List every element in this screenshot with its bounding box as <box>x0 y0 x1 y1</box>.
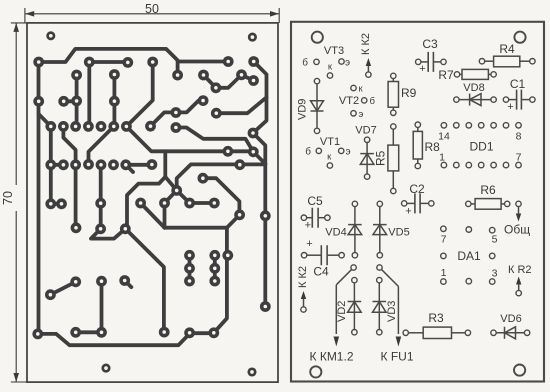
mounting hole <box>249 34 255 40</box>
svg-text:+: + <box>405 206 411 218</box>
wire <box>214 215 240 333</box>
wire to FU1 <box>377 265 401 347</box>
wire <box>253 152 265 164</box>
resistor R5 <box>374 124 399 194</box>
pad (113.8,126.4) <box>108 121 119 132</box>
wire <box>176 62 180 76</box>
pad (189.5,255.3) <box>184 250 195 261</box>
pad (75.7,281.8) <box>70 276 81 287</box>
svg-text:К К2: К К2 <box>360 33 372 55</box>
wire <box>64 99 77 103</box>
resistor R9 <box>388 73 417 115</box>
node K R2 arrow <box>508 264 532 296</box>
wire <box>176 128 253 152</box>
pad (175.9,127.5) <box>171 122 182 133</box>
pad (100.7,203.2) <box>95 198 106 209</box>
wire <box>151 101 204 127</box>
svg-text:VD2: VD2 <box>336 301 348 322</box>
diode VD2 <box>336 277 361 335</box>
pad (101.0,164.8) <box>96 159 107 170</box>
svg-text:+: + <box>419 63 425 75</box>
svg-text:C4: C4 <box>313 265 329 279</box>
wire <box>50 282 75 295</box>
resistor R7 <box>438 68 496 82</box>
pad (215.9,87.8) <box>211 82 222 93</box>
wire <box>126 163 152 167</box>
pad (253.5,80.5) <box>248 75 259 86</box>
pad (76.6,100.9) <box>71 96 82 107</box>
svg-text:VD9: VD9 <box>297 99 309 120</box>
pad (113.5,164.8) <box>108 159 119 170</box>
svg-text:R3: R3 <box>428 311 444 325</box>
pad (101.5,332.3) <box>96 327 107 338</box>
resistor R3 <box>403 311 471 339</box>
wire <box>203 178 240 215</box>
pad (164.2,332.1) <box>159 327 170 338</box>
pad (227.9,151.3) <box>223 146 234 157</box>
wire <box>141 203 165 228</box>
svg-text:э: э <box>345 58 350 69</box>
svg-text:8: 8 <box>516 131 522 143</box>
pad (175.9,112.5) <box>171 107 182 118</box>
pad (177.6,75.1) <box>172 70 183 81</box>
pad (100.6,228.8) <box>95 223 106 234</box>
transistor VT3 <box>302 45 350 78</box>
svg-text:14: 14 <box>438 131 450 143</box>
svg-text:70: 70 <box>1 191 15 205</box>
pad (214.8,268.3) <box>209 263 220 274</box>
pad (239.8,164.7) <box>234 159 245 170</box>
wire <box>49 126 53 203</box>
wire <box>39 114 51 127</box>
wire <box>163 203 167 228</box>
pad (214.8,255.3) <box>209 250 220 261</box>
pad (38.7,62) <box>33 57 44 68</box>
pad (38.7,101.3) <box>33 96 44 107</box>
svg-text:1: 1 <box>441 267 447 279</box>
pad (214.3,203) <box>209 198 220 209</box>
svg-text:R5: R5 <box>374 150 388 166</box>
pad (140.6,203) <box>135 198 146 209</box>
svg-text:+: + <box>507 101 513 113</box>
pad (125.8,164.8) <box>120 159 131 170</box>
svg-text:К FU1: К FU1 <box>381 350 414 364</box>
pad (76.0,227.8) <box>71 222 82 233</box>
wire <box>39 49 229 62</box>
svg-text:R4: R4 <box>499 42 515 56</box>
pad (63.4,164.8) <box>58 159 69 170</box>
wire <box>126 126 253 151</box>
svg-text:C1: C1 <box>510 77 526 91</box>
wire to KM1.2 <box>334 265 357 347</box>
diode VD7 <box>355 125 376 180</box>
svg-text:7: 7 <box>516 152 522 164</box>
mounting hole <box>48 33 54 39</box>
PCB board outline (copper side) <box>27 23 278 382</box>
wire <box>190 331 214 335</box>
svg-text:R6: R6 <box>480 183 496 197</box>
pad (88.5,164.4) <box>83 159 94 170</box>
svg-text:5: 5 <box>492 234 498 246</box>
wire <box>126 165 133 172</box>
pad (50.8,164.8) <box>45 159 56 170</box>
pad (228.2,61.5) <box>223 56 234 67</box>
svg-text:VD7: VD7 <box>355 125 376 137</box>
wire <box>177 164 266 190</box>
node K K2 (left arrow) <box>297 266 309 312</box>
wire <box>188 255 192 281</box>
wire <box>89 126 114 164</box>
pad (253.0,133.0) <box>248 128 259 139</box>
wire <box>100 281 104 332</box>
diode VD5 <box>373 201 410 258</box>
wire <box>87 62 91 126</box>
svg-text:б: б <box>370 96 376 107</box>
pad (50.4,294.7) <box>45 289 56 300</box>
diode VD3 <box>373 277 399 335</box>
pad (75.6,164.8) <box>70 159 81 170</box>
pad (203.1,100.6) <box>198 95 209 106</box>
pad (265.3,215.8) <box>260 210 271 221</box>
mounting hole <box>249 369 255 375</box>
mounting hole <box>312 32 323 43</box>
dimension line 70 (left) <box>13 23 19 32</box>
pad (50.8,126.4) <box>45 121 56 132</box>
capacitor C3 <box>416 37 447 75</box>
wire <box>89 60 128 64</box>
mounting hole <box>514 365 525 376</box>
pad (189.5,281.0) <box>184 276 195 287</box>
pad (101.5,281.2) <box>96 276 107 287</box>
pad (151.9,164.5) <box>147 159 158 170</box>
pad (75.6,126.4) <box>70 121 81 132</box>
wire <box>99 165 103 229</box>
svg-text:1: 1 <box>439 152 445 164</box>
svg-text:К R2: К R2 <box>508 264 532 276</box>
wire <box>126 62 152 126</box>
pad (241.5,74.8) <box>236 69 247 80</box>
svg-text:R7: R7 <box>438 68 454 82</box>
svg-text:C2: C2 <box>409 182 425 196</box>
svg-text:б: б <box>302 57 308 69</box>
pad (89.3,62) <box>84 57 95 68</box>
wire <box>216 97 266 113</box>
svg-text:э: э <box>346 147 351 158</box>
svg-text:К К2: К К2 <box>297 266 309 288</box>
pad (164.5,203) <box>159 198 170 209</box>
capacitor C1 <box>503 77 535 113</box>
pad (125.3,228.8) <box>120 223 131 234</box>
pad (124.7,280.5) <box>119 275 130 286</box>
node Obsh (common) arrow <box>504 201 530 236</box>
svg-text:VT2: VT2 <box>339 95 359 107</box>
resistor R8 <box>413 122 440 169</box>
diode VD8 <box>454 82 497 106</box>
pad (152.7,62) <box>147 57 158 68</box>
transistor VT1 <box>305 136 350 168</box>
pad (202.9,178.2) <box>198 173 209 184</box>
pad (37.8,333.9) <box>32 329 43 340</box>
svg-text:+: + <box>305 219 311 231</box>
svg-text:VD5: VD5 <box>388 227 409 239</box>
diode VD9 <box>297 78 324 133</box>
IC DA1 <box>441 226 498 284</box>
svg-text:VD8: VD8 <box>463 82 484 94</box>
resistor R4 <box>479 42 535 67</box>
svg-text:К КМ1.2: К КМ1.2 <box>310 350 354 364</box>
component side board outline <box>291 22 544 382</box>
pad (101.0,126.4) <box>96 121 107 132</box>
wire <box>213 255 217 281</box>
pad (114.4,101.2) <box>109 96 120 107</box>
pad (50.8,203.8) <box>45 198 56 209</box>
pad (76.6,75) <box>71 70 82 81</box>
wire <box>204 75 254 88</box>
svg-text:+: + <box>306 238 312 250</box>
node K K2 (top arrow) <box>360 33 372 77</box>
wire <box>165 177 177 203</box>
wire <box>113 75 117 127</box>
pad (214.8,281.0) <box>209 276 220 287</box>
pad (61.5,203.8) <box>56 198 67 209</box>
wire <box>51 163 64 167</box>
svg-text:3: 3 <box>492 268 498 280</box>
wire <box>125 281 132 288</box>
resistor R6 <box>466 183 510 209</box>
svg-text:э: э <box>359 109 364 120</box>
wire <box>125 229 164 333</box>
wire <box>125 151 165 229</box>
wire <box>39 62 191 345</box>
pad (213.8,332.8) <box>208 327 219 338</box>
svg-text:б: б <box>305 146 311 158</box>
svg-text:C5: C5 <box>307 194 323 208</box>
pad (63.4,126.4) <box>58 121 69 132</box>
wire <box>75 75 79 126</box>
svg-text:VT1: VT1 <box>320 136 340 148</box>
pad (265.3,306.5) <box>260 301 271 312</box>
diode VD6 <box>491 313 530 339</box>
IC DD1 <box>438 123 521 168</box>
pad (126.4,126.4) <box>121 121 132 132</box>
pad (127.8,62.4) <box>122 57 133 68</box>
wire <box>253 62 267 307</box>
svg-text:R9: R9 <box>401 86 417 100</box>
pad (239.6,214.8) <box>234 209 245 220</box>
pad (189.6,332.8) <box>184 327 195 338</box>
capacitor C4 <box>301 238 344 279</box>
pad (176.7,190.4) <box>171 185 182 196</box>
pad (203.5,75) <box>198 70 209 81</box>
pad (63.7,101.3) <box>58 96 69 107</box>
diode VD4 <box>325 201 361 258</box>
capacitor C5 <box>301 194 330 231</box>
pad (216.3,113.2) <box>211 108 222 119</box>
svg-text:VT3: VT3 <box>324 45 344 57</box>
pad (227.8,255.3) <box>222 250 233 261</box>
capacitor C2 <box>402 182 434 218</box>
wire <box>51 202 62 206</box>
mounting hole <box>514 32 525 43</box>
pad (88.4,126.4) <box>83 121 94 132</box>
svg-text:C3: C3 <box>422 37 438 51</box>
wire <box>76 330 102 334</box>
pad (253.7,61.5) <box>248 56 259 67</box>
svg-text:VD6: VD6 <box>500 313 521 325</box>
wire <box>177 190 215 203</box>
svg-text:VD4: VD4 <box>325 227 346 239</box>
svg-text:Общ: Общ <box>504 223 530 237</box>
mounting hole <box>310 366 321 377</box>
svg-text:DD1: DD1 <box>469 140 493 154</box>
wire <box>165 226 227 230</box>
mounting hole <box>103 365 109 371</box>
dimension label 70 <box>9 185 23 211</box>
svg-text:7: 7 <box>441 234 447 246</box>
svg-text:DA1: DA1 <box>457 249 481 263</box>
pad (189.6,203) <box>184 198 195 209</box>
transistor VT2 <box>339 84 376 121</box>
pad (189.5,268.3) <box>184 263 195 274</box>
dimension line 50 (top) <box>11 8 279 382</box>
svg-text:50: 50 <box>145 2 159 16</box>
pad (253.3,151.8) <box>248 146 259 157</box>
svg-text:VD3: VD3 <box>386 301 398 322</box>
pad (75.7,332.3) <box>70 327 81 338</box>
pad (114.4,74.5) <box>109 69 120 80</box>
wire <box>63 126 75 227</box>
wire <box>91 229 125 239</box>
pad (150.5,126.2) <box>145 121 156 132</box>
